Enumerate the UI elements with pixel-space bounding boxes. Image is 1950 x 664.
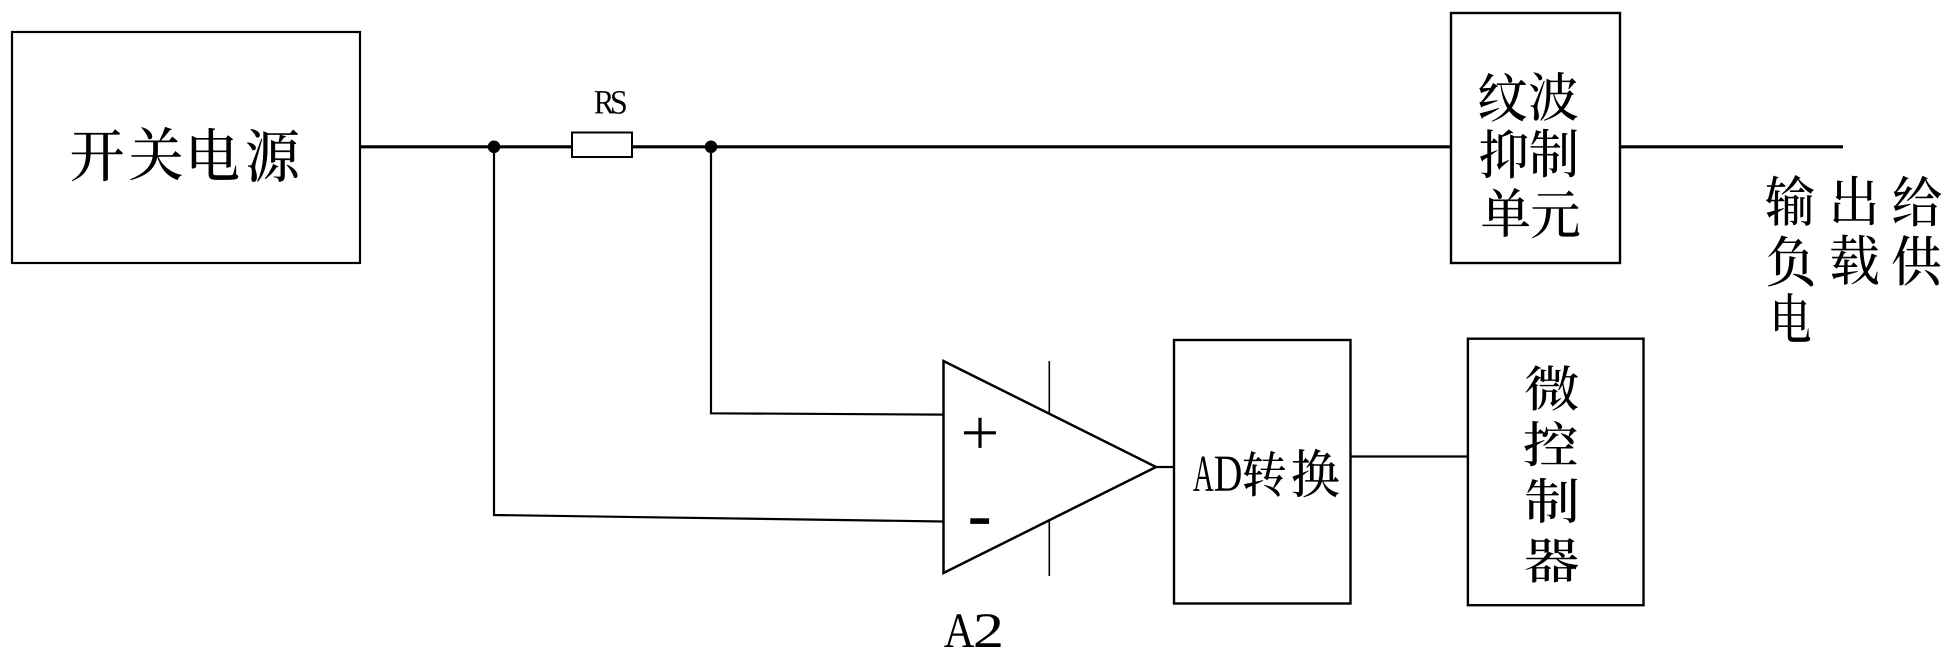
label 微控制器 xyxy=(1524,365,1578,582)
wire: AD converter to microcontroller xyxy=(1351,455,1469,457)
resistor RS body xyxy=(572,133,632,158)
op-amp + input marker xyxy=(964,418,996,448)
junction node B (non-inverting-sense tap) xyxy=(705,141,718,154)
wire: node A down and across to comparator inverting input xyxy=(494,147,944,522)
label AD (of AD转换) xyxy=(1193,457,1241,491)
op-amp - input marker xyxy=(970,518,989,524)
label 纹波抑制单元 xyxy=(1479,72,1579,238)
op-amp power pin (bottom) xyxy=(1048,520,1050,576)
block U2: 纹波抑制单元 (ripple suppression unit) xyxy=(1451,13,1620,263)
wire: op-amp output to AD converter xyxy=(1156,466,1175,468)
op-amp comparator A2 body xyxy=(944,361,1157,573)
wire: power supply output to resistor RS xyxy=(360,145,572,148)
wire: node B to ripple suppression unit xyxy=(711,145,1451,148)
block U4: 微控制器 (microcontroller) xyxy=(1468,339,1644,606)
wire: ripple unit output to load xyxy=(1620,145,1843,148)
junction node A (inverting-sense tap) xyxy=(488,141,501,154)
wire: resistor RS to node B xyxy=(632,145,711,148)
block U3: AD转换 (A/D converter) xyxy=(1174,340,1351,604)
label RS xyxy=(595,91,626,114)
label 输出给负载供电 (output supplies the load) xyxy=(1766,175,1941,342)
designator A2 xyxy=(944,614,1000,647)
wire: node B down and across to comparator non-inverting input xyxy=(711,147,944,415)
label 开关电源 xyxy=(72,127,298,182)
op-amp power pin (top) xyxy=(1048,361,1050,414)
block U1: 开关电源 (switching power supply) xyxy=(12,32,360,263)
label 转换 (of AD转换) xyxy=(1244,449,1339,498)
